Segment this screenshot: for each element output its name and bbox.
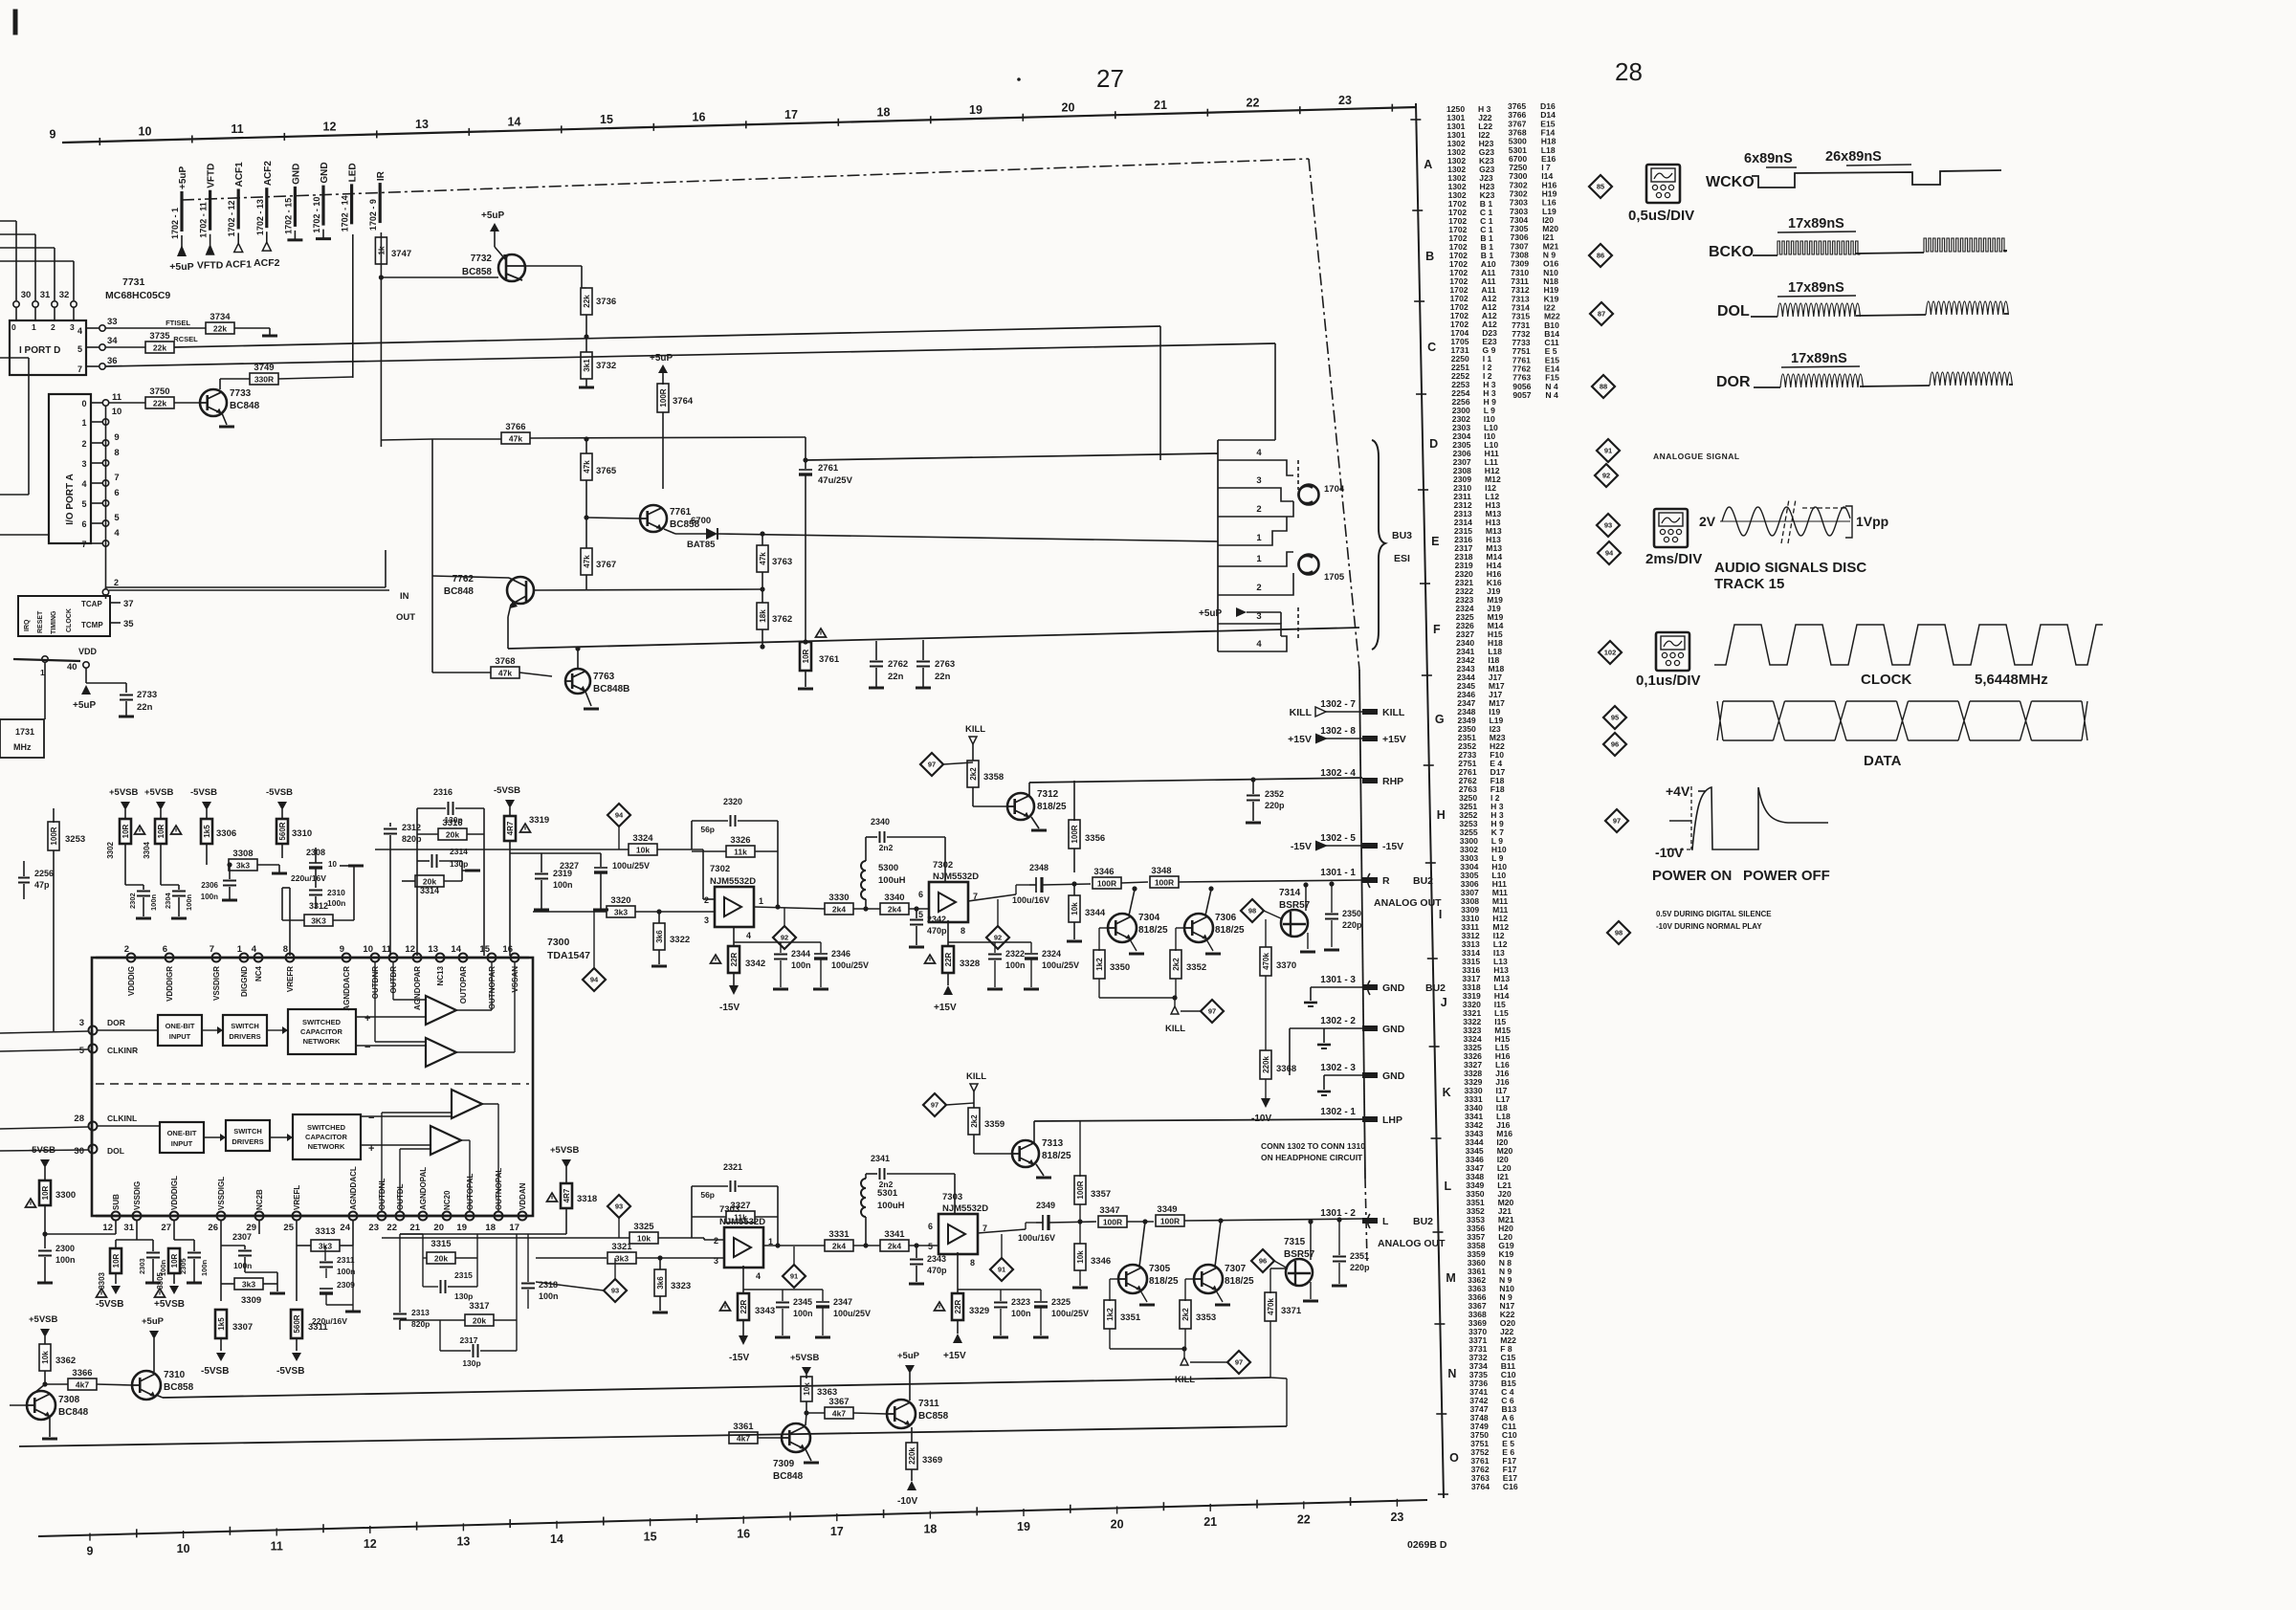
svg-text:1: 1 bbox=[1256, 533, 1262, 543]
svg-text:3326: 3326 bbox=[730, 835, 750, 846]
svg-text:100n: 100n bbox=[791, 960, 811, 970]
svg-text:3k6: 3k6 bbox=[656, 1276, 665, 1290]
svg-text:220p: 220p bbox=[1342, 920, 1362, 930]
diamond 93 a bbox=[607, 1195, 630, 1218]
svg-text:26x89nS: 26x89nS bbox=[1825, 149, 1882, 165]
svg-text:5300: 5300 bbox=[878, 863, 898, 873]
svg-text:TDA1547: TDA1547 bbox=[547, 950, 590, 961]
capacitor 2302 100n bbox=[143, 885, 144, 890]
svg-text:3318: 3318 bbox=[577, 1194, 597, 1204]
svg-text:NC4: NC4 bbox=[254, 965, 263, 981]
svg-text:18: 18 bbox=[877, 106, 891, 120]
svg-text:220p: 220p bbox=[1350, 1263, 1370, 1272]
supply 3329 +15V bbox=[957, 1252, 959, 1293]
crystal 1731 block bbox=[0, 719, 44, 758]
svg-text:ACF2: ACF2 bbox=[263, 161, 274, 187]
svg-text:13: 13 bbox=[456, 1534, 470, 1548]
svg-text:-15V: -15V bbox=[719, 1003, 740, 1013]
svg-text:ESI: ESI bbox=[1394, 553, 1410, 564]
svg-text:3348: 3348 bbox=[1151, 866, 1171, 876]
dash-dot module boundary vertical bbox=[1309, 159, 1359, 670]
resistor 3762 18k bbox=[762, 589, 763, 603]
svg-text:BC848: BC848 bbox=[230, 401, 260, 411]
svg-text:+15V: +15V bbox=[934, 1003, 957, 1013]
svg-text:7763: 7763 bbox=[593, 672, 615, 682]
svg-text:VDDAN: VDDAN bbox=[519, 1182, 527, 1210]
svg-text:3k6: 3k6 bbox=[655, 930, 664, 943]
svg-text:3: 3 bbox=[81, 459, 86, 469]
svg-text:10k: 10k bbox=[803, 1382, 811, 1396]
svg-text:MHz: MHz bbox=[13, 742, 32, 752]
svg-text:91: 91 bbox=[790, 1272, 798, 1281]
capacitor 2350 220p bbox=[1329, 881, 1334, 886]
resistor 3761 10R bbox=[816, 629, 827, 637]
oscilloscope icon 0.1us bbox=[1656, 632, 1689, 671]
svg-text:47k: 47k bbox=[583, 555, 591, 568]
svg-text:1702 - 14: 1702 - 14 bbox=[341, 195, 350, 232]
svg-text:3312: 3312 bbox=[309, 901, 328, 911]
svg-text:5: 5 bbox=[918, 910, 923, 919]
transistor 7312 bbox=[1007, 793, 1034, 820]
resistor 3321 3k3 bbox=[536, 1257, 607, 1259]
svg-text:4: 4 bbox=[756, 1271, 761, 1281]
svg-text:1k5: 1k5 bbox=[217, 1317, 226, 1331]
svg-text:47k: 47k bbox=[498, 669, 512, 678]
svg-text:1301 - 3: 1301 - 3 bbox=[1320, 975, 1356, 985]
svg-text:20k: 20k bbox=[473, 1316, 486, 1326]
svg-text:6: 6 bbox=[918, 890, 923, 899]
svg-text:-10V: -10V bbox=[1655, 845, 1684, 860]
svg-text:3k3: 3k3 bbox=[236, 861, 250, 871]
diamond 94 a bbox=[607, 804, 630, 827]
svg-text:3732: 3732 bbox=[596, 361, 616, 371]
svg-text:2k4: 2k4 bbox=[832, 1242, 846, 1251]
svg-text:2344: 2344 bbox=[791, 949, 810, 959]
svg-text:OUTOPAR: OUTOPAR bbox=[459, 966, 468, 1003]
svg-text:818/25: 818/25 bbox=[1149, 1276, 1179, 1287]
capacitor 2313 820p bbox=[399, 1234, 401, 1312]
svg-text:+5uP: +5uP bbox=[650, 353, 673, 364]
svg-text:7762: 7762 bbox=[453, 574, 475, 584]
svg-text:18k: 18k bbox=[759, 609, 767, 623]
svg-text:G: G bbox=[1435, 713, 1445, 726]
svg-text:2: 2 bbox=[81, 439, 86, 449]
svg-text:AGNDOPAL: AGNDOPAL bbox=[419, 1167, 428, 1210]
diamond 91 a bbox=[783, 1265, 806, 1288]
svg-text:2343: 2343 bbox=[927, 1254, 946, 1264]
svg-text:3331: 3331 bbox=[828, 1229, 850, 1240]
svg-text:3328: 3328 bbox=[960, 959, 980, 969]
svg-text:2307: 2307 bbox=[232, 1232, 252, 1242]
transistor 7761 BC858 bbox=[640, 505, 667, 532]
ground 7315 bbox=[1310, 1282, 1312, 1299]
svg-text:+5VSB: +5VSB bbox=[109, 787, 139, 798]
svg-text:2315: 2315 bbox=[454, 1270, 473, 1280]
transistor 7311 BC858 bbox=[887, 1400, 916, 1428]
svg-text:14: 14 bbox=[508, 116, 521, 129]
svg-text:1302 - 1: 1302 - 1 bbox=[1320, 1107, 1356, 1117]
svg-text:10: 10 bbox=[363, 944, 373, 955]
svg-text:VSSDIGL: VSSDIGL bbox=[217, 1177, 226, 1210]
svg-text:ANALOG OUT: ANALOG OUT bbox=[1374, 897, 1442, 909]
wire IR net bbox=[380, 232, 382, 447]
wire LHP long bbox=[1034, 1119, 1362, 1121]
svg-text:27: 27 bbox=[1096, 64, 1124, 93]
capacitor 2733 22n bbox=[125, 683, 127, 693]
resistor 3766 47k bbox=[501, 432, 530, 444]
svg-text:2: 2 bbox=[1256, 504, 1261, 515]
svg-text:GND: GND bbox=[1382, 1070, 1405, 1082]
svg-text:SUB: SUB bbox=[112, 1194, 121, 1210]
capacitor 2323 100n bbox=[958, 1289, 1041, 1290]
svg-text:23: 23 bbox=[368, 1223, 379, 1233]
svg-text:2: 2 bbox=[704, 895, 709, 905]
inductor 5300 100uH bbox=[863, 906, 868, 911]
svg-text:N 4: N 4 bbox=[1545, 390, 1558, 400]
svg-text:5301: 5301 bbox=[877, 1188, 898, 1199]
svg-text:2345: 2345 bbox=[793, 1297, 812, 1307]
svg-text:3342: 3342 bbox=[745, 959, 765, 969]
svg-text:7315: 7315 bbox=[1284, 1237, 1306, 1247]
svg-text:2302: 2302 bbox=[128, 893, 137, 909]
svg-text:B: B bbox=[1425, 250, 1434, 263]
svg-text:93: 93 bbox=[615, 1202, 623, 1211]
svg-text:VSSDIGR: VSSDIGR bbox=[212, 966, 221, 1001]
svg-text:4R7: 4R7 bbox=[506, 821, 515, 835]
transistor 7307 bbox=[1194, 1265, 1223, 1293]
feedback 2321 56p bbox=[691, 1186, 693, 1238]
svg-text:22R: 22R bbox=[954, 1299, 962, 1313]
svg-text:3764: 3764 bbox=[1471, 1482, 1490, 1491]
svg-text:3369: 3369 bbox=[922, 1455, 942, 1466]
svg-text:17: 17 bbox=[830, 1525, 844, 1538]
svg-text:5: 5 bbox=[77, 344, 82, 354]
wire mid row 616 bbox=[109, 589, 389, 591]
svg-text:16: 16 bbox=[693, 111, 706, 124]
wire CLKINL DOL from left bbox=[0, 1127, 88, 1129]
svg-text:BC858: BC858 bbox=[462, 267, 493, 277]
svg-text:15: 15 bbox=[479, 944, 490, 955]
svg-text:5: 5 bbox=[928, 1242, 933, 1251]
svg-text:VREFR: VREFR bbox=[286, 966, 295, 992]
svg-text:1k2: 1k2 bbox=[1106, 1308, 1115, 1321]
dashed divider TDA1547 bbox=[96, 1083, 529, 1085]
svg-text:7312: 7312 bbox=[1037, 789, 1059, 800]
svg-text:22k: 22k bbox=[213, 324, 227, 334]
svg-text:12: 12 bbox=[102, 1223, 113, 1233]
resistor 3352 2k2 bbox=[1176, 927, 1184, 929]
svg-text:818/25: 818/25 bbox=[1215, 925, 1245, 936]
resistor 3747 1k bbox=[375, 237, 386, 264]
svg-text:8: 8 bbox=[970, 1258, 975, 1268]
svg-text:L: L bbox=[1445, 1180, 1452, 1193]
svg-text:RESET: RESET bbox=[37, 610, 44, 633]
svg-text:16: 16 bbox=[737, 1528, 750, 1541]
capacitor 2305 100n bbox=[193, 1240, 195, 1251]
svg-text:12: 12 bbox=[405, 944, 415, 955]
svg-text:3366: 3366 bbox=[72, 1368, 92, 1378]
svg-text:94: 94 bbox=[615, 811, 624, 820]
svg-text:18: 18 bbox=[485, 1223, 496, 1233]
svg-text:4: 4 bbox=[81, 479, 86, 489]
svg-text:17: 17 bbox=[784, 108, 798, 121]
svg-text:TRACK 15: TRACK 15 bbox=[1714, 576, 1784, 592]
svg-text:2309: 2309 bbox=[337, 1280, 355, 1290]
svg-text:14: 14 bbox=[550, 1533, 563, 1546]
capacitor 2304 100n bbox=[178, 885, 180, 890]
svg-text:3362: 3362 bbox=[55, 1356, 76, 1366]
resistor 3316 20k bbox=[438, 828, 467, 840]
svg-text:220k: 220k bbox=[1262, 1056, 1270, 1073]
svg-text:2256: 2256 bbox=[2, 875, 3, 876]
svg-text:NJM5532D: NJM5532D bbox=[933, 871, 979, 882]
svg-text:SWITCH: SWITCH bbox=[233, 1127, 262, 1136]
svg-text:1702 - 9: 1702 - 9 bbox=[368, 199, 378, 231]
svg-text:3351: 3351 bbox=[1120, 1312, 1141, 1323]
resistor 3368 220k bbox=[1260, 1050, 1271, 1079]
svg-text:85: 85 bbox=[1597, 183, 1604, 191]
svg-text:-10V: -10V bbox=[897, 1496, 917, 1507]
svg-text:17: 17 bbox=[509, 1223, 519, 1233]
svg-text:33: 33 bbox=[107, 317, 118, 327]
svg-text:97: 97 bbox=[928, 761, 936, 769]
svg-text:100u/25V: 100u/25V bbox=[831, 960, 869, 970]
svg-text:1702 - 12: 1702 - 12 bbox=[227, 200, 236, 236]
svg-text:KILL: KILL bbox=[965, 724, 985, 735]
svg-text:10R: 10R bbox=[170, 1253, 179, 1268]
resistor 3351 1k2 bbox=[1110, 1278, 1118, 1280]
svg-text:100R: 100R bbox=[659, 388, 668, 407]
svg-text:4k7: 4k7 bbox=[832, 1409, 846, 1419]
svg-text:2349: 2349 bbox=[1036, 1201, 1055, 1210]
svg-text:DOL: DOL bbox=[1717, 303, 1750, 320]
svg-text:VREFL: VREFL bbox=[293, 1185, 301, 1210]
svg-text:1301 - 2: 1301 - 2 bbox=[1320, 1208, 1356, 1219]
capacitor 2319 100n bbox=[541, 853, 542, 872]
wire 3749 net bbox=[219, 379, 221, 389]
power +5uP at pin40 bbox=[81, 685, 91, 695]
svg-text:1: 1 bbox=[81, 418, 86, 428]
power +5uP 7732 bbox=[494, 230, 496, 247]
svg-text:13: 13 bbox=[428, 944, 438, 955]
svg-text:3302: 3302 bbox=[106, 841, 115, 858]
svg-text:102: 102 bbox=[1604, 649, 1617, 657]
svg-text:100R: 100R bbox=[1103, 1218, 1122, 1227]
switched capacitor network L bbox=[293, 1114, 361, 1159]
svg-text:GND: GND bbox=[1382, 982, 1405, 994]
svg-text:100R: 100R bbox=[50, 827, 58, 845]
svg-text:35: 35 bbox=[123, 619, 134, 629]
svg-text:34: 34 bbox=[107, 336, 118, 346]
svg-text:1302 - 4: 1302 - 4 bbox=[1320, 768, 1356, 779]
svg-text:INPUT: INPUT bbox=[171, 1139, 193, 1148]
svg-text:3323: 3323 bbox=[671, 1281, 691, 1291]
svg-text:3306: 3306 bbox=[216, 828, 236, 839]
svg-text:12: 12 bbox=[323, 121, 337, 134]
svg-text:1702 - 10: 1702 - 10 bbox=[312, 197, 321, 233]
svg-text:3324: 3324 bbox=[632, 833, 653, 844]
svg-text:3367: 3367 bbox=[828, 1397, 849, 1407]
svg-text:5,6448MHz: 5,6448MHz bbox=[1975, 672, 2048, 688]
svg-text:4: 4 bbox=[252, 944, 257, 955]
svg-text:6: 6 bbox=[163, 944, 167, 955]
opamp internal R1 bbox=[426, 996, 456, 1025]
svg-text:VSSDIG: VSSDIG bbox=[133, 1181, 142, 1210]
capacitor 2341 2n2 bbox=[866, 1173, 877, 1175]
svg-text:820p: 820p bbox=[402, 834, 422, 844]
svg-text:+15V: +15V bbox=[943, 1351, 966, 1361]
svg-text:2347: 2347 bbox=[833, 1297, 852, 1307]
resistor 3302 10R bbox=[120, 819, 131, 844]
resistor 3304 10R bbox=[155, 819, 166, 844]
svg-text:BU3: BU3 bbox=[1392, 530, 1412, 541]
transistor 7313 bbox=[1012, 1140, 1039, 1167]
svg-text:3310: 3310 bbox=[292, 828, 312, 839]
svg-text:+5VSB: +5VSB bbox=[154, 1299, 185, 1310]
wire 7732 emitter to IR node bbox=[381, 276, 498, 278]
svg-text:N: N bbox=[1447, 1367, 1456, 1380]
svg-text:7303: 7303 bbox=[719, 1204, 740, 1215]
ground 7304 emitter bbox=[1130, 939, 1137, 951]
oscilloscope icon 0.5uS bbox=[1646, 165, 1680, 203]
svg-text:2348: 2348 bbox=[1029, 863, 1049, 872]
svg-text:GND: GND bbox=[320, 162, 330, 183]
svg-text:2: 2 bbox=[51, 322, 55, 332]
svg-text:100n: 100n bbox=[185, 893, 193, 911]
resistor 3307 1k5 bbox=[215, 1310, 227, 1338]
svg-text:7: 7 bbox=[77, 364, 82, 374]
svg-text:3K3: 3K3 bbox=[311, 916, 326, 926]
svg-text:3736: 3736 bbox=[596, 297, 616, 307]
svg-text:3k1: 3k1 bbox=[583, 359, 591, 372]
svg-text:5: 5 bbox=[81, 499, 86, 509]
capacitor 2348 100u/16V bbox=[1029, 884, 1036, 886]
resistor 3732 3k1 bbox=[585, 339, 587, 352]
svg-text:22R: 22R bbox=[944, 952, 953, 966]
svg-text:+15V: +15V bbox=[1288, 734, 1312, 745]
svg-text:K: K bbox=[1443, 1086, 1451, 1099]
svg-text:+5uP: +5uP bbox=[897, 1351, 920, 1361]
transistor 7315 BSR57 bbox=[1286, 1259, 1313, 1286]
svg-text:6: 6 bbox=[114, 488, 119, 498]
svg-text:CLKINR: CLKINR bbox=[107, 1046, 138, 1055]
svg-text:95: 95 bbox=[1611, 714, 1619, 722]
svg-text:100n: 100n bbox=[793, 1309, 813, 1318]
page speck bbox=[1017, 77, 1021, 81]
svg-text:100u/25V: 100u/25V bbox=[833, 1309, 871, 1318]
svg-text:130p: 130p bbox=[450, 859, 468, 869]
svg-text:+5uP: +5uP bbox=[73, 700, 97, 711]
svg-text:7307: 7307 bbox=[1225, 1264, 1247, 1274]
TDA1547 top rail wire bbox=[96, 957, 529, 959]
opamp 7303 a bbox=[724, 1227, 763, 1268]
svg-text:3320: 3320 bbox=[610, 895, 630, 906]
svg-text:2: 2 bbox=[1256, 583, 1261, 593]
svg-text:6x89nS: 6x89nS bbox=[1744, 151, 1793, 166]
svg-text:28: 28 bbox=[1615, 57, 1643, 86]
svg-text:10k: 10k bbox=[637, 1234, 651, 1244]
ground 7308 bbox=[49, 1417, 51, 1437]
opamp internal L bbox=[452, 1090, 482, 1118]
wire R analog line bbox=[375, 849, 629, 850]
svg-text:2312: 2312 bbox=[402, 823, 421, 832]
diamond 97 p28 bbox=[1605, 809, 1628, 832]
wire FTISEL bbox=[105, 327, 206, 329]
resistor 3736 22k bbox=[581, 288, 592, 315]
diamond 102 bbox=[1599, 641, 1622, 664]
svg-text:BCKO: BCKO bbox=[1709, 244, 1754, 260]
svg-text:17x89nS: 17x89nS bbox=[1791, 351, 1847, 366]
svg-text:IRQ: IRQ bbox=[24, 619, 31, 631]
svg-text:560R: 560R bbox=[293, 1314, 301, 1333]
svg-text:3346: 3346 bbox=[1093, 867, 1114, 877]
svg-text:3761: 3761 bbox=[819, 654, 840, 665]
capacitor 2325 100u/25V bbox=[1040, 1290, 1042, 1301]
svg-text:+5uP: +5uP bbox=[481, 210, 505, 221]
capacitor 2352 220p bbox=[1250, 777, 1255, 782]
svg-text:3763: 3763 bbox=[772, 557, 792, 567]
svg-text:2: 2 bbox=[124, 944, 129, 955]
svg-text:86: 86 bbox=[1597, 252, 1604, 260]
capacitor 2346 100u/25V bbox=[820, 942, 822, 953]
svg-text:KILL: KILL bbox=[1165, 1024, 1185, 1034]
svg-text:3353: 3353 bbox=[1196, 1312, 1216, 1323]
svg-text:3750: 3750 bbox=[149, 386, 169, 397]
svg-text:1302 - 7: 1302 - 7 bbox=[1320, 699, 1356, 710]
svg-text:1704: 1704 bbox=[1324, 484, 1345, 495]
resistor 3308 3k3 bbox=[206, 844, 208, 865]
wire L analog line bbox=[382, 1237, 629, 1239]
capacitor 2351 220p bbox=[1336, 1217, 1341, 1222]
svg-text:IN: IN bbox=[400, 591, 409, 602]
wire TCAP net bbox=[105, 587, 107, 589]
svg-text:3352: 3352 bbox=[1186, 962, 1206, 973]
svg-text:47k: 47k bbox=[759, 552, 767, 565]
top ruler line bbox=[62, 107, 1417, 143]
svg-text:3319: 3319 bbox=[529, 815, 549, 826]
svg-text:VDDDIG: VDDDIG bbox=[127, 966, 136, 996]
resistor 3347 100R bbox=[1098, 1216, 1127, 1227]
svg-text:1302 - 8: 1302 - 8 bbox=[1320, 726, 1356, 737]
svg-text:3764: 3764 bbox=[673, 396, 694, 407]
svg-text:POWER ON: POWER ON bbox=[1652, 868, 1732, 884]
svg-text:3767: 3767 bbox=[596, 560, 616, 570]
svg-text:10: 10 bbox=[177, 1542, 190, 1555]
svg-text:8: 8 bbox=[114, 448, 119, 458]
svg-text:11: 11 bbox=[271, 1539, 283, 1553]
svg-text:3768: 3768 bbox=[495, 656, 515, 667]
resistor 3340 2k4 bbox=[880, 903, 909, 915]
diamond 96 L bbox=[1251, 1249, 1274, 1272]
svg-text:98: 98 bbox=[1248, 907, 1256, 915]
transistor 7306 bbox=[1184, 914, 1213, 942]
svg-text:22n: 22n bbox=[137, 702, 153, 713]
wire 7309 collector bbox=[804, 1410, 808, 1415]
diamond 92 bbox=[1595, 464, 1618, 487]
svg-text:10: 10 bbox=[328, 860, 337, 869]
resistor 3371 470k bbox=[1269, 1268, 1271, 1293]
svg-text:I: I bbox=[1439, 908, 1442, 921]
svg-text:BU2: BU2 bbox=[1413, 875, 1433, 887]
svg-text:1Vpp: 1Vpp bbox=[1856, 514, 1888, 529]
diamond 92 b bbox=[986, 926, 1009, 949]
supply 3328 +15V bbox=[947, 920, 949, 946]
svg-text:2325: 2325 bbox=[1051, 1297, 1071, 1307]
wire VREFR net bbox=[282, 887, 290, 889]
svg-text:1302 - 5: 1302 - 5 bbox=[1320, 833, 1356, 844]
svg-text:3357: 3357 bbox=[1091, 1189, 1111, 1200]
svg-text:56p: 56p bbox=[700, 1190, 715, 1200]
